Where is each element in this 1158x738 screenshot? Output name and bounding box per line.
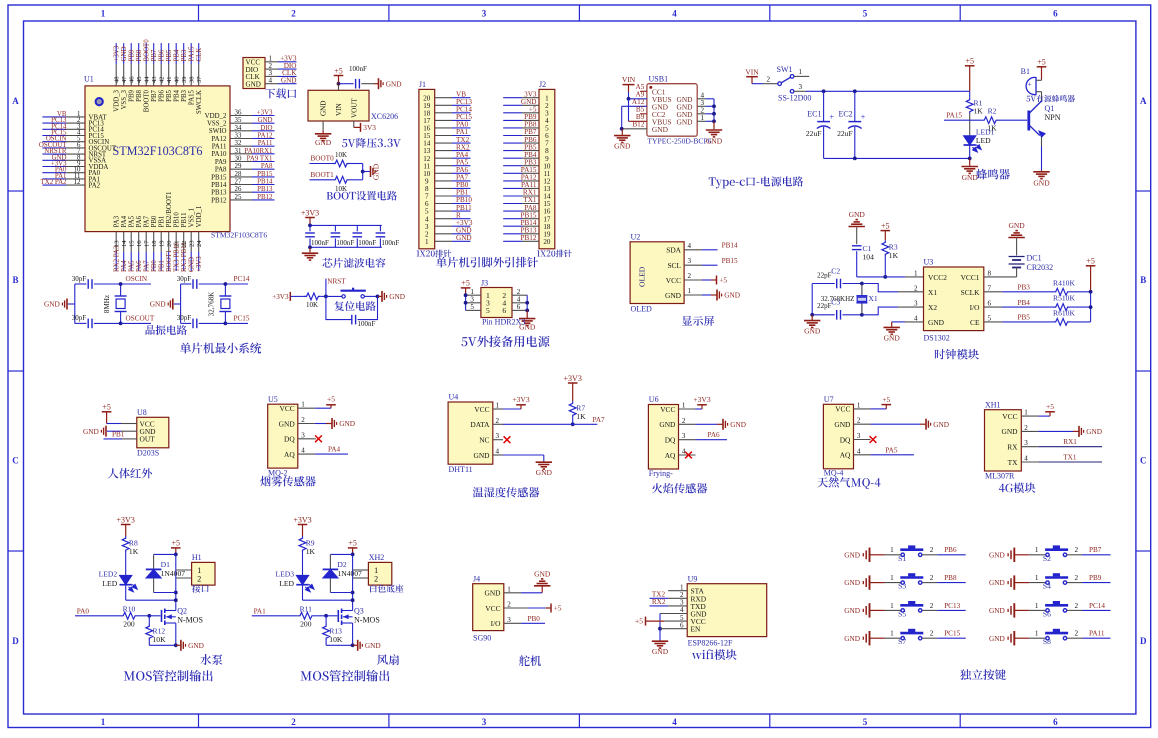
ground Q3 xyxy=(357,640,359,651)
module XH1 4G body xyxy=(985,400,1039,480)
svg-text:TYPEC-250D-BCP6: TYPEC-250D-BCP6 xyxy=(647,137,711,146)
svg-text:MQ-4: MQ-4 xyxy=(824,469,844,478)
U1 pin 47 VSS_3 net GND xyxy=(121,43,128,109)
U1 pin 23 VSS_1 net GND xyxy=(189,207,196,272)
button S7 net PC15 xyxy=(844,629,966,646)
svg-text:PA11: PA11 xyxy=(212,144,227,151)
svg-text:Q3: Q3 xyxy=(354,606,364,615)
svg-text:VIN: VIN xyxy=(745,68,759,77)
svg-text:U6: U6 xyxy=(649,395,659,404)
svg-text:GND: GND xyxy=(258,117,273,124)
svg-text:GND: GND xyxy=(279,419,296,428)
U1 pin 32 PA11 net PA11 xyxy=(212,140,275,150)
pushbutton reset xyxy=(326,288,382,299)
svg-text:RX1: RX1 xyxy=(1063,438,1077,446)
svg-text:PB7: PB7 xyxy=(1089,546,1102,554)
ground U5 xyxy=(315,418,355,429)
svg-text:U5: U5 xyxy=(268,395,278,404)
svg-text:LED: LED xyxy=(102,579,117,588)
ground left crystal xyxy=(44,299,75,310)
svg-text:Frying-: Frying- xyxy=(649,469,673,478)
servo J4 SG90 body xyxy=(473,574,512,642)
no-connect U6 AQ xyxy=(685,452,692,459)
power +5 U5 xyxy=(315,395,336,409)
svg-text:1K: 1K xyxy=(576,412,586,421)
svg-text:PA4: PA4 xyxy=(328,446,341,454)
svg-text:35: 35 xyxy=(235,117,242,124)
svg-text:5: 5 xyxy=(863,717,868,727)
svg-text:PB5: PB5 xyxy=(1018,314,1031,322)
svg-text:1: 1 xyxy=(890,630,894,638)
ground right crystal xyxy=(150,299,181,310)
svg-text:28: 28 xyxy=(235,171,242,178)
usb pin B5 CC2 xyxy=(636,105,647,113)
svg-text:37: 37 xyxy=(196,76,203,83)
U1 pin 40 PB4 net PB4 xyxy=(174,43,181,102)
wire usb right gnd bus xyxy=(712,99,716,130)
svg-text:23: 23 xyxy=(189,240,196,247)
usb right pins 4..1 xyxy=(697,91,714,122)
svg-text:S4: S4 xyxy=(1043,582,1051,591)
transistor Q2 N-MOS xyxy=(149,606,203,645)
svg-text:A: A xyxy=(1140,96,1147,106)
wire H1 +5 column xyxy=(174,553,178,611)
U1 pin 3 PC14 net PC14 xyxy=(42,123,104,133)
svg-text:VCC: VCC xyxy=(474,405,489,414)
label J1 1X20 header xyxy=(416,250,451,258)
svg-text:PA4: PA4 xyxy=(121,260,128,272)
svg-text:8MHz: 8MHz xyxy=(103,295,111,313)
caption flame sensor xyxy=(652,483,707,494)
svg-text:4: 4 xyxy=(914,314,918,322)
svg-text:PB6: PB6 xyxy=(159,89,166,101)
caption crystal circuit xyxy=(146,325,187,335)
caption natural gas MQ-4 xyxy=(817,477,880,489)
display U2 OLED body xyxy=(630,232,702,313)
svg-text:1: 1 xyxy=(1035,574,1039,582)
svg-text:VOUT: VOUT xyxy=(350,98,358,118)
svg-text:6: 6 xyxy=(1053,9,1058,19)
U1 pin 20 PB2/BOOT1 net BOOT1 xyxy=(166,191,173,272)
svg-text:1: 1 xyxy=(1035,546,1039,554)
svg-text:+5: +5 xyxy=(334,66,343,75)
wire X1 to U3 pins xyxy=(862,284,924,315)
no-connect U7 DQ xyxy=(870,436,877,443)
svg-text:22uF: 22uF xyxy=(806,129,822,138)
svg-text:2: 2 xyxy=(291,9,296,19)
usb pin B12 GND xyxy=(622,120,647,128)
caption type-c power xyxy=(709,176,803,188)
svg-text:C2: C2 xyxy=(831,267,840,276)
svg-text:2: 2 xyxy=(496,417,500,425)
ground usb left xyxy=(614,135,630,137)
svg-text:PB9: PB9 xyxy=(129,89,136,101)
svg-text:B1: B1 xyxy=(1021,67,1030,76)
svg-text:PB10: PB10 xyxy=(174,212,181,228)
power VIN usb xyxy=(622,75,636,99)
svg-text:2: 2 xyxy=(1075,630,1079,638)
svg-text:PC14: PC14 xyxy=(1089,602,1105,610)
caption reset circuit xyxy=(334,301,375,311)
U1 pin 28 PB15 net PB15 xyxy=(211,171,274,181)
svg-text:PA10: PA10 xyxy=(211,151,227,158)
power +3V3 reset xyxy=(272,292,305,301)
svg-text:6: 6 xyxy=(988,300,992,308)
svg-text:N-MOS: N-MOS xyxy=(354,615,380,624)
sensor U5 MQ-2 body xyxy=(268,395,315,478)
caption buzzer xyxy=(976,169,1010,180)
U1 pin 2 PC13 net PC13 xyxy=(42,117,104,127)
svg-text:GND: GND xyxy=(150,300,166,309)
svg-text:PA7: PA7 xyxy=(144,260,151,272)
svg-text:PA6: PA6 xyxy=(136,215,143,227)
U1 pin 22 PB11 net RX3 PB11 xyxy=(181,212,188,272)
svg-text:10K: 10K xyxy=(335,151,347,159)
U1 pin 16 PA6 net PA6 xyxy=(136,215,143,272)
U1 pin 24 VDD_1 net +3V3 xyxy=(196,205,203,272)
U1 pin 30 PA9 net PA9 TX1 xyxy=(215,156,275,166)
ground bar reset xyxy=(381,291,383,302)
svg-text:+3V3: +3V3 xyxy=(693,395,710,404)
svg-text:SW1: SW1 xyxy=(777,65,793,74)
regulator U4 XC6206 body xyxy=(308,90,398,121)
svg-text:30pF: 30pF xyxy=(177,275,192,283)
ground U7 xyxy=(871,419,950,430)
svg-text:PB12: PB12 xyxy=(257,194,273,201)
svg-text:TX1: TX1 xyxy=(1063,454,1077,462)
svg-text:43: 43 xyxy=(151,76,158,83)
U1 pin 26 PB13 net PB13 xyxy=(211,186,274,196)
svg-text:VCC: VCC xyxy=(660,405,675,414)
usb pin A9 VBUS xyxy=(627,90,647,100)
U1 pin 8 VSSA net GND xyxy=(42,154,106,164)
capacitor 100nF reset loop xyxy=(326,296,378,327)
svg-text:1: 1 xyxy=(890,546,894,554)
resistor 10K reset xyxy=(304,293,328,309)
svg-text:VCC: VCC xyxy=(1002,412,1017,421)
svg-text:PA10RX1: PA10RX1 xyxy=(244,148,273,155)
U1 pin 11 PA1 net PA1 xyxy=(42,173,100,183)
svg-text:22pF: 22pF xyxy=(817,302,832,310)
usb pin A12 GND xyxy=(622,98,647,106)
caption independent buttons xyxy=(960,669,1006,680)
wire usb left gnd bus xyxy=(620,106,624,135)
svg-text:SCL: SCL xyxy=(667,261,681,270)
svg-text:PB5: PB5 xyxy=(166,49,173,61)
svg-text:GND: GND xyxy=(928,318,945,327)
resistor R8 1K xyxy=(122,536,138,575)
svg-text:PB4: PB4 xyxy=(174,89,181,101)
svg-text:SWIO: SWIO xyxy=(209,128,227,135)
svg-text:H1: H1 xyxy=(192,553,202,562)
svg-text:U3: U3 xyxy=(924,258,934,267)
svg-text:GND: GND xyxy=(677,118,694,127)
U1 pin 21 PB10 net TX3 PB10 xyxy=(174,212,181,272)
svg-text:PB12: PB12 xyxy=(211,197,227,204)
svg-text:NRST: NRST xyxy=(327,278,346,286)
svg-text:AQ: AQ xyxy=(284,450,295,459)
ground U6 xyxy=(696,419,747,430)
svg-text:XH1: XH1 xyxy=(985,400,1001,409)
caption temp-humidity sensor xyxy=(473,487,540,498)
svg-text:Q2: Q2 xyxy=(177,606,187,615)
svg-text:44: 44 xyxy=(144,76,151,83)
svg-text:NPN: NPN xyxy=(1045,113,1061,122)
svg-text:J1: J1 xyxy=(419,80,426,89)
ground U4 xyxy=(493,455,553,477)
ground U8 xyxy=(83,426,137,437)
svg-text:PB13: PB13 xyxy=(211,190,227,197)
svg-text:13: 13 xyxy=(114,240,121,247)
net PA0 xyxy=(75,607,121,616)
net PC15 xyxy=(225,314,249,323)
ground servo xyxy=(504,569,551,593)
svg-text:GND: GND xyxy=(614,142,631,151)
label 白色底座 xyxy=(370,584,403,592)
svg-text:PB3: PB3 xyxy=(1018,284,1031,292)
svg-text:+5: +5 xyxy=(348,539,357,548)
svg-text:PA5: PA5 xyxy=(129,260,136,272)
no-connect U4 NC xyxy=(493,436,511,443)
svg-text:19: 19 xyxy=(159,240,166,247)
svg-text:33: 33 xyxy=(235,133,242,140)
svg-text:+3V3: +3V3 xyxy=(564,374,582,383)
U1 pin 4 PC15 net PC15 xyxy=(42,130,104,140)
svg-text:GND: GND xyxy=(989,606,1005,615)
wire wifi gnd bus xyxy=(658,614,687,641)
svg-text:R10: R10 xyxy=(123,604,136,613)
svg-text:PC14: PC14 xyxy=(234,275,250,283)
svg-text:SWCLK: SWCLK xyxy=(196,90,203,114)
svg-text:DC1: DC1 xyxy=(1027,254,1042,263)
svg-text:2: 2 xyxy=(374,574,378,583)
wire XH2 +5 column xyxy=(351,553,355,611)
wire J3 right bus xyxy=(525,295,529,312)
ground J3 xyxy=(519,310,536,331)
caption display xyxy=(682,316,714,326)
svg-text:VCC: VCC xyxy=(279,404,294,413)
power +5 U8 xyxy=(102,403,137,424)
svg-text:PB3: PB3 xyxy=(181,89,188,101)
svg-text:S1: S1 xyxy=(898,554,906,563)
caption wifi module xyxy=(692,649,737,660)
svg-text:NC: NC xyxy=(479,436,489,445)
svg-text:N-MOS: N-MOS xyxy=(177,615,203,624)
svg-text:VCC2: VCC2 xyxy=(928,273,947,282)
svg-text:GND: GND xyxy=(989,578,1005,587)
svg-text:2: 2 xyxy=(930,574,934,582)
svg-text:SDA: SDA xyxy=(666,246,681,255)
svg-text:PA4: PA4 xyxy=(121,215,128,227)
caption MCU minimal system xyxy=(180,343,261,354)
svg-text:6: 6 xyxy=(517,303,521,311)
svg-text:1: 1 xyxy=(1035,630,1039,638)
wire Q2 source rail xyxy=(149,643,180,647)
caption clock module xyxy=(935,349,979,360)
svg-text:3: 3 xyxy=(507,616,511,624)
svg-text:PA2: PA2 xyxy=(89,183,101,190)
svg-text:GND: GND xyxy=(652,647,669,656)
svg-text:MQ-2: MQ-2 xyxy=(268,469,288,478)
svg-text:GND: GND xyxy=(473,451,490,460)
svg-text:100nF: 100nF xyxy=(311,239,329,247)
svg-text:PA0: PA0 xyxy=(77,607,90,615)
U1 pin 6 OSCOUT net OSCOUT xyxy=(39,142,117,152)
svg-text:GND: GND xyxy=(246,81,261,89)
svg-text:TX: TX xyxy=(1008,458,1019,467)
svg-text:+5: +5 xyxy=(635,617,643,626)
U1 pin 25 PB12 net PB12 xyxy=(211,194,274,204)
svg-text:CE: CE xyxy=(970,318,980,327)
svg-text:X1: X1 xyxy=(868,294,877,303)
svg-text:42: 42 xyxy=(159,76,166,83)
svg-text:R410K: R410K xyxy=(1053,278,1075,287)
svg-text:B: B xyxy=(12,275,18,285)
svg-text:+5: +5 xyxy=(882,395,890,404)
svg-text:PB6: PB6 xyxy=(159,49,166,61)
svg-text:CLK: CLK xyxy=(196,48,203,62)
svg-text:21: 21 xyxy=(174,240,181,247)
wire buzzer emitter xyxy=(1041,137,1043,170)
wire VIN node xyxy=(337,82,354,91)
svg-text:29: 29 xyxy=(235,163,242,170)
svg-text:34: 34 xyxy=(235,125,242,132)
svg-text:S5: S5 xyxy=(898,609,906,618)
svg-text:RX2: RX2 xyxy=(652,598,666,606)
svg-text:SS-12D00: SS-12D00 xyxy=(778,94,811,103)
svg-text:OSCOUT: OSCOUT xyxy=(126,314,155,322)
svg-text:OLED: OLED xyxy=(638,266,647,287)
svg-text:100nF: 100nF xyxy=(349,65,367,73)
svg-text:PA7: PA7 xyxy=(593,416,606,424)
usb pin A5 CC1 xyxy=(636,83,647,91)
svg-text:PA8: PA8 xyxy=(261,163,273,170)
U1 pin 48 VDD_3 net +3V3 xyxy=(114,43,121,112)
svg-text:2: 2 xyxy=(1075,574,1079,582)
svg-text:S2: S2 xyxy=(1043,554,1051,563)
svg-text:3: 3 xyxy=(301,431,305,439)
wire J3 left bus xyxy=(464,293,468,310)
svg-text:CR2032: CR2032 xyxy=(1027,263,1054,272)
svg-text:PA7: PA7 xyxy=(144,215,151,227)
capacitor 100nF at XC6206 xyxy=(349,65,378,89)
usb pin B9 VBUS xyxy=(629,99,647,122)
svg-text:PC15: PC15 xyxy=(944,630,960,638)
crystal X1 32.768KHZ xyxy=(821,282,878,317)
svg-text:PC15: PC15 xyxy=(234,314,250,322)
caption 5V active buzzer xyxy=(1026,95,1075,102)
svg-text:GND: GND xyxy=(933,420,949,429)
caption BOOT circuit xyxy=(327,191,397,201)
svg-text:S8: S8 xyxy=(1043,637,1051,646)
svg-text:12: 12 xyxy=(74,179,81,186)
svg-text:2: 2 xyxy=(930,630,934,638)
resistor R10 200 xyxy=(121,604,151,628)
svg-text:4: 4 xyxy=(496,448,500,456)
svg-text:PB8: PB8 xyxy=(944,574,957,582)
svg-text:RX2 PA3: RX2 PA3 xyxy=(114,245,121,272)
svg-text:ESP8266-12F: ESP8266-12F xyxy=(688,638,733,647)
net RX2 wifi xyxy=(650,598,688,606)
U1 pin 33 PA12 net PA12 xyxy=(211,133,274,143)
U1 pin 7 NRST net NRSTR xyxy=(42,148,107,158)
svg-text:1K: 1K xyxy=(987,124,997,133)
no-connect U5 DQ xyxy=(315,435,322,442)
resistor R2 1K xyxy=(982,107,1027,133)
svg-text:GND: GND xyxy=(849,210,866,219)
U1 pin 15 PA5 net PA5 xyxy=(129,215,136,272)
U1 pin 36 VDD_2 net +3V3 xyxy=(205,110,275,120)
svg-text:1: 1 xyxy=(301,401,305,409)
svg-text:PB9: PB9 xyxy=(1089,574,1102,582)
svg-text:30: 30 xyxy=(235,156,242,163)
button S6 net PC14 xyxy=(989,601,1111,618)
svg-text:3: 3 xyxy=(688,257,692,265)
svg-text:DHT11: DHT11 xyxy=(449,465,473,474)
wire right crystal bus xyxy=(181,284,192,323)
capacitor EC1 22uF xyxy=(806,91,835,158)
svg-text:15: 15 xyxy=(129,240,136,247)
svg-text:DS1302: DS1302 xyxy=(924,334,950,343)
svg-text:VSS_1: VSS_1 xyxy=(189,207,196,227)
caption 4G module xyxy=(999,483,1036,493)
power VIN sw xyxy=(745,68,777,84)
svg-text:32.768KHZ: 32.768KHZ xyxy=(821,295,855,303)
power +3V3 U4 xyxy=(493,395,530,409)
svg-text:VCC: VCC xyxy=(666,276,681,285)
ground C1 xyxy=(849,226,865,228)
svg-text:PA12: PA12 xyxy=(257,133,273,140)
svg-text:I/O: I/O xyxy=(970,303,981,312)
U1 pin 13 PA3 net RX2 PA3 xyxy=(114,215,121,272)
svg-text:PB7: PB7 xyxy=(151,89,158,101)
svg-text:6: 6 xyxy=(502,306,506,315)
svg-text:GND: GND xyxy=(365,641,381,650)
svg-text:30pF: 30pF xyxy=(72,275,87,283)
svg-text:1: 1 xyxy=(425,238,429,246)
svg-text:OSCIN: OSCIN xyxy=(126,275,148,283)
ground bar BOOT xyxy=(370,166,372,177)
svg-text:26: 26 xyxy=(235,186,242,193)
svg-text:GND: GND xyxy=(44,300,60,309)
ground U3 GND pin xyxy=(884,322,924,343)
caption smoke sensor xyxy=(260,476,316,487)
svg-text:PB0: PB0 xyxy=(151,215,158,227)
svg-text:GND: GND xyxy=(372,163,381,180)
net PA15 wire xyxy=(944,111,982,120)
svg-text:BOOT1: BOOT1 xyxy=(166,249,173,272)
svg-text:Q1: Q1 xyxy=(1045,104,1055,113)
svg-text:GND: GND xyxy=(665,291,682,300)
U1 pin 10 PA0 net PA0 xyxy=(42,167,100,177)
crystal Y2 32.768K xyxy=(208,282,232,325)
svg-text:31: 31 xyxy=(235,148,242,155)
caption download port xyxy=(265,88,296,98)
svg-text:D: D xyxy=(12,636,19,646)
svg-text:GND: GND xyxy=(659,420,676,429)
button S5 net PC13 xyxy=(844,601,966,618)
svg-text:XH2: XH2 xyxy=(369,553,385,562)
U1 pin 17 PA7 net PA7 xyxy=(144,215,151,272)
wire BOOT node xyxy=(361,164,370,180)
svg-text:3: 3 xyxy=(482,717,487,727)
wire gnd rail bottom xyxy=(824,157,972,161)
svg-text:6: 6 xyxy=(1053,717,1058,727)
svg-text:GND: GND xyxy=(1008,221,1025,230)
button S1 net PB6 xyxy=(844,545,966,562)
svg-text:PA12: PA12 xyxy=(211,136,227,143)
svg-text:LED: LED xyxy=(279,579,294,588)
